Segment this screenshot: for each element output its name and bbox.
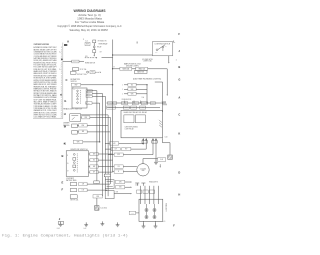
svg-text:G-03: G-03: [57, 228, 60, 230]
svg-text:K: K: [178, 131, 180, 135]
inline connector on bus: [94, 181, 99, 184]
svg-text:G/B: G/B: [119, 187, 121, 189]
ground G4: [100, 221, 104, 225]
wire from switch down: [168, 56, 170, 62]
T-bar symbols: [135, 182, 139, 184]
connector C3: [105, 191, 114, 199]
svg-text:ON: ON: [165, 46, 167, 48]
wire y=154.6: [108, 154, 114, 156]
wire y=131.9: [77, 131, 78, 133]
wire dashed y=57.8: [85, 57, 96, 59]
svg-text:OFF: OFF: [155, 52, 158, 54]
fuse label: [131, 106, 137, 109]
wire y=103.1: [86, 102, 87, 104]
svg-text:B/R: B/R: [93, 166, 95, 168]
wire bus x=108.1: [107, 115, 109, 196]
switch S1 contacts: [156, 49, 158, 51]
connector C2: [105, 180, 114, 189]
svg-text:R/B: R/B: [82, 131, 84, 133]
svg-text:FUSE BLOCK: FUSE BLOCK: [122, 99, 132, 101]
relay K3 dimmer: [70, 114, 81, 122]
table frame: [62, 43, 64, 119]
fuse label: [141, 102, 147, 105]
svg-text:L/R: L/R: [115, 149, 117, 151]
svg-text:X-05, NEAR LEFT KICK PANEL: X-05, NEAR LEFT KICK PANEL: [34, 116, 57, 119]
row y=196: [70, 195, 77, 199]
wire x=145.0: [144, 186, 146, 204]
svg-text:W/R: W/R: [142, 107, 145, 109]
fuse cluster C: [72, 68, 78, 71]
wire right rail stub: [155, 81, 163, 83]
svg-text:B: B: [118, 171, 119, 173]
wire x=153.9: [153, 186, 155, 204]
svg-text:R/B: R/B: [91, 72, 93, 74]
svg-text:DIMMER: DIMMER: [63, 123, 70, 125]
wire y=68.8: [113, 68, 120, 70]
wire fan to X-03: [142, 159, 144, 164]
relay K5: [135, 115, 145, 123]
svg-text:R/B: R/B: [85, 117, 87, 119]
wire vertical x=147: [146, 85, 148, 103]
lamp: [145, 215, 148, 218]
fuse label: [122, 102, 128, 105]
inline connector on bus: [104, 174, 110, 177]
svg-text:Copyright © 1998 Mitchell Repa: Copyright © 1998 Mitchell Repair Informa…: [57, 25, 121, 28]
svg-text:(CLOSED WITH: (CLOSED WITH: [142, 59, 152, 61]
wire row y=103: [107, 102, 163, 104]
lamp: [153, 208, 156, 211]
wire x=140.5: [139, 186, 141, 204]
svg-text:Saturday, May 10, 2001 11:09P: Saturday, May 10, 2001 11:09PM: [69, 28, 107, 32]
connector hatch: [162, 101, 163, 105]
svg-text:OFF: OFF: [73, 88, 76, 90]
lamp: [145, 208, 148, 211]
wire into motor y=166.5: [113, 166, 115, 168]
svg-text:For Yorba Linda Miata: For Yorba Linda Miata: [75, 20, 105, 24]
wire y=149.1: [105, 148, 111, 150]
wire y=90.7: [86, 90, 88, 92]
wire y=142.2: [73, 140, 83, 143]
wire bus x=112.6 lower: [112, 103, 114, 172]
fuse label: [140, 106, 146, 109]
svg-text:W/R: W/R: [131, 93, 134, 95]
wire to lighting switch: [113, 54, 153, 56]
svg-text:R: R: [152, 103, 153, 105]
wire corner down x=167.2: [166, 69, 168, 95]
svg-text:L/R: L/R: [82, 184, 84, 186]
junction marker: [60, 94, 62, 96]
arrow marker: [64, 44, 68, 46]
svg-text:HORN SWITCH: HORN SWITCH: [85, 63, 95, 65]
component chain vertical x=94.2: [93, 40, 96, 43]
svg-text:B/L: B/L: [93, 160, 95, 162]
svg-text:H: H: [178, 192, 180, 196]
fuse label: [132, 102, 138, 105]
wire y=154.0: [88, 153, 89, 155]
wire tags stack: [86, 90, 92, 93]
svg-text:W/B: W/B: [116, 192, 119, 194]
svg-text:ST: ST: [67, 171, 69, 173]
svg-text:TNS: TNS: [63, 143, 66, 145]
junction: [112, 54, 113, 55]
svg-text:H: H: [64, 112, 66, 116]
wire y=160.1: [88, 159, 89, 161]
relay box U1: [121, 110, 163, 137]
svg-text:G-04: G-04: [83, 228, 86, 230]
svg-text:LIGHTING SWITCH: LIGHTING SWITCH: [155, 43, 171, 45]
svg-text:B: B: [67, 155, 68, 157]
reference box: [134, 71, 147, 74]
wire x=158.4: [157, 186, 159, 204]
svg-text:W/L: W/L: [131, 84, 134, 86]
fuse label: [123, 106, 129, 109]
svg-text:B: B: [178, 65, 180, 69]
svg-text:B: B: [61, 154, 63, 158]
wire into motor y=171.5: [113, 171, 115, 173]
connector X-08: [168, 155, 173, 159]
svg-text:B/R: B/R: [88, 90, 90, 92]
ground G3: [84, 222, 88, 226]
svg-text:SWITCH: SWITCH: [71, 81, 77, 83]
wire y=172.1: [88, 171, 89, 173]
headlight box: [139, 199, 163, 221]
fuse label: [151, 102, 156, 105]
switch S1 lighting switch box: [152, 42, 172, 56]
svg-text:Fig. 1: Engine Compartment, H: Fig. 1: Engine Compartment, Headlights (…: [2, 234, 128, 239]
motor M1 cooling fan: [137, 164, 149, 176]
svg-text:G: G: [64, 99, 66, 103]
switch S3 chain: [72, 124, 78, 128]
wire x=149.4: [148, 186, 150, 204]
wire row y=107.5: [107, 107, 161, 109]
wire y=143.7: [110, 142, 119, 145]
svg-text:I: I: [137, 40, 138, 44]
svg-text:D: D: [178, 170, 180, 174]
wire y=125.5: [77, 124, 78, 126]
wire bus x=110.4: [109, 117, 111, 184]
wire y=85 with label: [71, 83, 80, 86]
wire bus x=96.9: [96, 91, 98, 184]
junction marker: [61, 58, 63, 60]
connector C4: [93, 195, 102, 198]
connector C1 label box: [85, 42, 90, 45]
fuse F1 label: [63, 60, 72, 62]
ground G2: [59, 222, 63, 226]
wire y=160: [155, 144, 157, 160]
junction: [112, 68, 113, 69]
svg-text:R/L: R/L: [134, 102, 136, 104]
connector X-06 left: [129, 211, 135, 214]
wire with connector y=72: [87, 71, 89, 73]
fuse E row y=184: [70, 182, 76, 185]
svg-text:1: 1: [176, 60, 177, 62]
wire y=166.5: [88, 165, 89, 167]
svg-text:R/G: R/G: [124, 102, 126, 104]
svg-text:X-01: X-01: [85, 41, 88, 43]
wire color tags on verticals: [137, 190, 142, 193]
switch S2 box: [72, 88, 87, 108]
svg-text:W/R: W/R: [77, 141, 80, 143]
svg-text:R/B: R/B: [143, 102, 145, 104]
svg-text:W/B: W/B: [131, 89, 134, 91]
svg-text:X-08: X-08: [164, 137, 167, 139]
fuse F row y=190: [70, 188, 76, 191]
ground G1: [154, 160, 158, 164]
svg-text:A: A: [67, 39, 69, 43]
wire bus x=99.7: [99, 103, 101, 142]
svg-text:R/Y: R/Y: [125, 149, 127, 151]
relay K4: [124, 115, 134, 123]
svg-text:COMPONENT LOCATIONS: COMPONENT LOCATIONS: [34, 43, 50, 46]
fuse label: [108, 101, 117, 104]
svg-text:W/B: W/B: [85, 56, 88, 58]
svg-text:G-05: G-05: [162, 221, 165, 223]
svg-text:E: E: [61, 181, 63, 185]
svg-text:C: C: [178, 112, 180, 116]
wire bus x=102.5: [101, 94, 103, 197]
diode pair D1 D2: [142, 138, 144, 144]
wire y=57.6 to bus: [102, 57, 113, 59]
lamp: [153, 215, 156, 218]
svg-text:LIGHTS ON): LIGHTS ON): [143, 61, 152, 63]
connector label right: [158, 158, 166, 162]
svg-text:X-06: X-06: [131, 212, 134, 214]
svg-text:IG: IG: [67, 163, 68, 165]
stubs into row y103: [124, 101, 126, 103]
grounds below box: [142, 221, 144, 224]
svg-text:A: A: [178, 96, 180, 100]
svg-text:L: L: [173, 39, 175, 43]
wire y=117.4: [80, 116, 83, 118]
svg-text:X-02 (BLK): X-02 (BLK): [100, 208, 107, 210]
svg-text:W/L: W/L: [133, 107, 136, 109]
fuse label: [107, 106, 116, 109]
svg-text:B/Y: B/Y: [100, 51, 102, 53]
connector marks right edge: [159, 120, 162, 122]
svg-text:G: G: [178, 77, 180, 81]
ground G5: [116, 222, 120, 226]
svg-text:W/G: W/G: [125, 107, 128, 109]
wire bus x=105.3: [104, 96, 106, 190]
wire main vertical bus x=112.6: [112, 40, 114, 104]
svg-text:L/B: L/B: [118, 166, 120, 168]
wire from box right to connector X-08: [161, 138, 163, 143]
svg-text:(ENGINE COMPT): (ENGINE COMPT): [126, 65, 139, 67]
svg-text:C: C: [66, 78, 68, 82]
svg-text:X-03: X-03: [160, 159, 163, 161]
svg-text:B/Y: B/Y: [93, 172, 95, 174]
wire y=114.9: [81, 114, 109, 116]
